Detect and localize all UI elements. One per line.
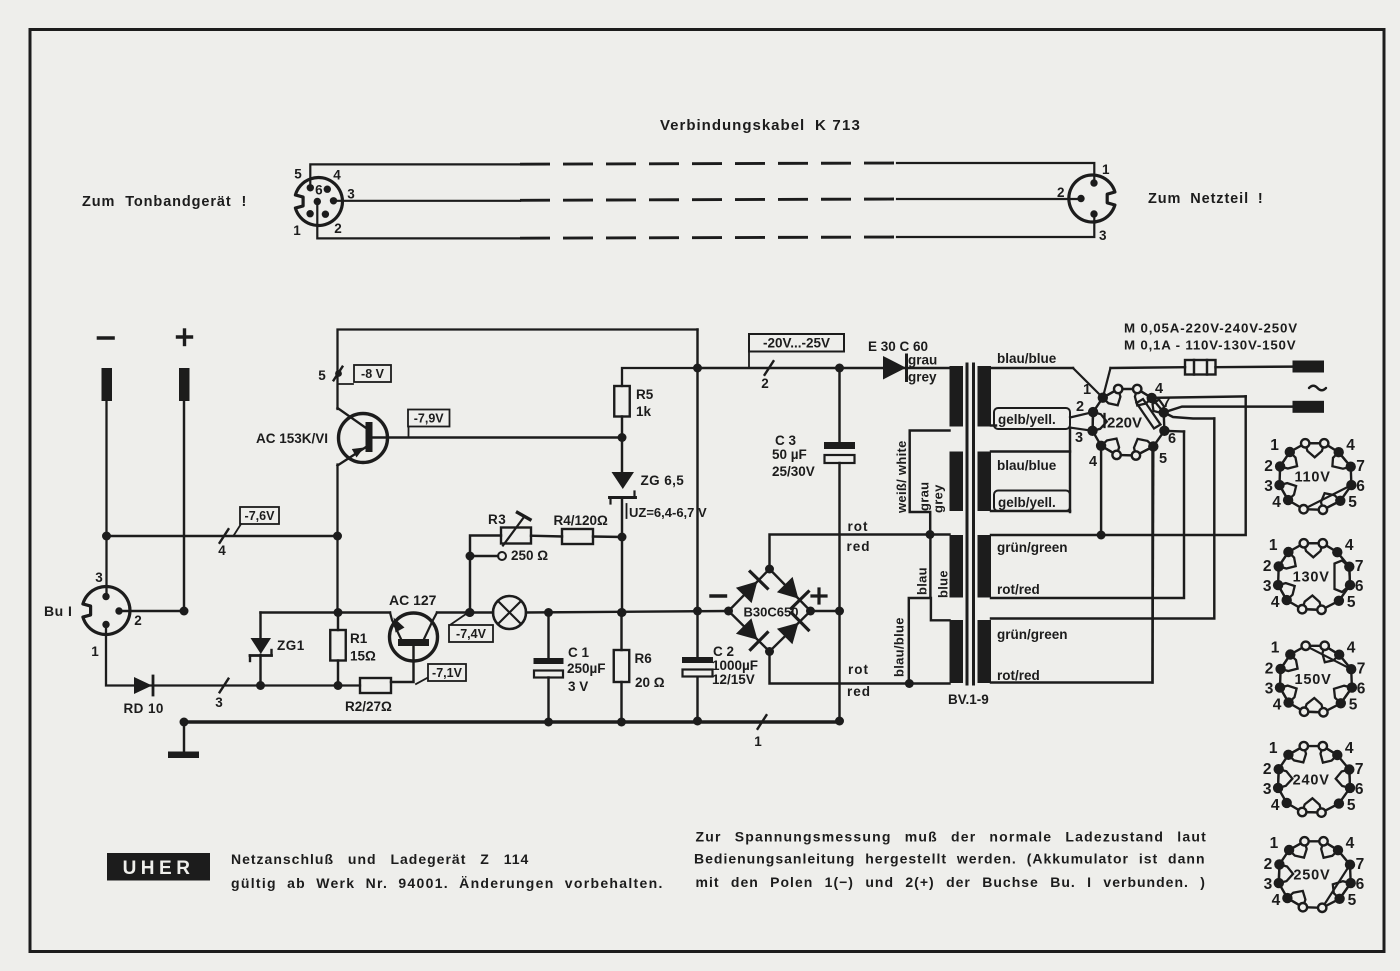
svg-text:3: 3 [1099, 228, 1107, 243]
svg-text:4: 4 [1271, 797, 1280, 814]
svg-text:2: 2 [1263, 761, 1272, 778]
mains terminal 2 [1293, 401, 1325, 413]
svg-text:4: 4 [1272, 892, 1281, 909]
svg-text:3: 3 [1265, 681, 1274, 698]
wire Bu I pin1 down to RD10 rail [106, 625, 360, 686]
svg-text:6: 6 [1356, 876, 1365, 893]
svg-text:K 713: K 713 [815, 117, 861, 134]
svg-text:grey: grey [908, 370, 937, 385]
svg-text:4: 4 [1346, 835, 1355, 852]
voltage label -7,9V [408, 427, 410, 438]
svg-text:1: 1 [91, 644, 99, 659]
svg-text:2: 2 [1263, 558, 1272, 575]
svg-text:blau/blue: blau/blue [997, 458, 1057, 473]
wire pin4 bottom-left down to green [1100, 446, 1102, 535]
svg-text:250 Ω: 250 Ω [511, 548, 548, 563]
svg-text:Bu I: Bu I [44, 603, 72, 619]
wire to pin3 [1070, 428, 1093, 431]
svg-text:3: 3 [347, 187, 355, 202]
selector detail 240V [1278, 746, 1350, 813]
bridge diode top-right [777, 577, 799, 599]
svg-text:7: 7 [1355, 558, 1364, 575]
svg-text:rot/red: rot/red [997, 582, 1040, 597]
diode RD10 [134, 677, 152, 694]
svg-text:5: 5 [1348, 494, 1357, 511]
svg-text:UZ=6,4-6,7 V: UZ=6,4-6,7 V [629, 505, 707, 520]
fuse M0.05A [1185, 360, 1216, 375]
svg-text:1000µF: 1000µF [712, 658, 758, 673]
svg-text:7: 7 [1357, 661, 1366, 678]
svg-text:ZG 6,5: ZG 6,5 [641, 473, 685, 488]
svg-text:6: 6 [1356, 478, 1365, 495]
svg-text:2: 2 [134, 613, 142, 628]
label UZ=6,4-6,7V [626, 504, 628, 518]
secondary wire rot/red SD bottom [991, 447, 1153, 683]
svg-text:-8 V: -8 V [361, 367, 385, 381]
svg-text:3: 3 [1263, 578, 1272, 595]
svg-text:20 Ω: 20 Ω [635, 675, 665, 690]
svg-text:red: red [847, 539, 871, 554]
svg-text:6: 6 [1168, 431, 1176, 447]
svg-text:BV.1-9: BV.1-9 [948, 692, 989, 707]
bridge diode bottom-right [777, 623, 799, 645]
selector detail 130V [1278, 543, 1350, 610]
secondary wire rot/red SC bottom [991, 432, 1184, 599]
svg-text:3: 3 [215, 695, 223, 710]
svg-text:1: 1 [754, 734, 762, 749]
svg-text:gelb/yell.: gelb/yell. [998, 412, 1056, 427]
svg-text:red: red [847, 684, 871, 699]
wire pin6 to rot riser [1164, 430, 1184, 433]
svg-text:R3: R3 [488, 512, 506, 527]
wire emitter node to AC127 [261, 611, 391, 613]
wire fuse to mains terminal 1 [1216, 365, 1293, 368]
svg-text:3 V: 3 V [568, 679, 588, 694]
svg-text:R4/120Ω: R4/120Ω [554, 513, 609, 528]
secondary wire blau/blue to pin1 [991, 367, 1073, 369]
resistor R4 120ohm [562, 529, 593, 544]
svg-text:RD 10: RD 10 [124, 701, 164, 716]
bridge diode top-left [736, 581, 758, 603]
svg-text:5: 5 [1348, 892, 1357, 909]
wire cable bottom conductor pin6 to pin3 [317, 202, 520, 239]
battery plus terminal [178, 335, 192, 338]
svg-text:130V: 130V [1293, 570, 1330, 586]
svg-text:6: 6 [1357, 681, 1366, 698]
svg-text:-7,9V: -7,9V [414, 412, 445, 426]
resistor R5 1k [622, 368, 698, 386]
svg-text:4: 4 [1272, 494, 1281, 511]
R3 wiper [498, 552, 506, 560]
selector detail 250V [1279, 841, 1351, 908]
220V rotor contact [1137, 399, 1161, 429]
bridge minus label [711, 594, 726, 597]
svg-text:grün/green: grün/green [997, 627, 1068, 642]
primary tap weiss/white [910, 431, 950, 535]
wire AC127 collector to lamp [437, 611, 493, 613]
svg-text:150V: 150V [1295, 672, 1332, 688]
svg-text:-20V...-25V: -20V...-25V [763, 336, 830, 351]
svg-text:AC 153K/VI: AC 153K/VI [256, 431, 328, 446]
svg-text:ZG1: ZG1 [277, 638, 305, 653]
secondary wire SB top blau/blue [991, 450, 1070, 452]
wire pin7 to terminal 2 [1164, 407, 1293, 413]
svg-text:blau/blue: blau/blue [997, 351, 1057, 366]
svg-text:4: 4 [1345, 537, 1354, 554]
svg-text:7: 7 [1356, 458, 1365, 475]
svg-text:R5: R5 [636, 387, 654, 402]
resistor R6 20ohm [614, 650, 630, 682]
svg-text:1k: 1k [636, 404, 652, 419]
svg-text:rot: rot [848, 662, 869, 677]
wire lamp to bridge minus [526, 611, 729, 613]
battery minus terminal [99, 336, 114, 340]
svg-text:UHER: UHER [123, 858, 195, 879]
capacitor C3 50uF [838, 368, 840, 442]
svg-text:Netzanschluß und Ladegerät Z 1: Netzanschluß und Ladegerät Z 114 [231, 851, 529, 867]
svg-text:2: 2 [1264, 458, 1273, 475]
svg-text:C 1: C 1 [568, 645, 590, 660]
svg-text:6: 6 [1355, 578, 1364, 595]
svg-text:5: 5 [1347, 594, 1356, 611]
svg-text:mit den Polen 1(−) und 2(+) de: mit den Polen 1(−) und 2(+) der Buchse B… [696, 874, 1206, 890]
svg-text:4: 4 [1271, 594, 1280, 611]
svg-text:4: 4 [1089, 454, 1097, 470]
resistor R1 15ohm [330, 630, 346, 661]
svg-text:250µF: 250µF [567, 661, 606, 676]
ground symbol [183, 722, 185, 752]
transformer core [966, 364, 969, 684]
svg-text:5: 5 [1347, 797, 1356, 814]
wire -20V rail [698, 367, 950, 369]
svg-text:-7,6V: -7,6V [245, 509, 276, 523]
secondary wire gelb/yell boxed to pin2 [991, 424, 996, 426]
wire R3 left to lamp node [470, 536, 501, 613]
svg-text:1: 1 [1269, 537, 1278, 554]
svg-text:12/15V: 12/15V [712, 672, 755, 687]
svg-text:6: 6 [1355, 781, 1364, 798]
svg-text:1: 1 [1269, 740, 1278, 757]
bottom bus wire [184, 720, 840, 724]
wire bridge AC top rot/red [770, 535, 950, 570]
svg-text:25/30V: 25/30V [772, 464, 815, 479]
switch contact 1 on bus [758, 715, 767, 729]
svg-text:gelb/yell.: gelb/yell. [998, 495, 1056, 510]
voltage selector 220V [1093, 389, 1165, 456]
connector J1 Tonbandgeraet 6-pin DIN [295, 178, 342, 226]
svg-text:5: 5 [318, 368, 326, 383]
svg-text:5: 5 [1349, 697, 1358, 714]
svg-text:weiß/ white: weiß/ white [894, 440, 909, 514]
transistor Q2 AC127 [390, 613, 438, 661]
svg-text:2: 2 [761, 376, 769, 391]
svg-text:1: 1 [293, 223, 301, 238]
svg-text:4: 4 [218, 543, 226, 558]
transistor Q1 AC153K/VI [339, 414, 388, 463]
selector detail 110V [1280, 443, 1352, 510]
zener diode ZG1 [259, 613, 261, 640]
svg-text:15Ω: 15Ω [350, 649, 376, 664]
svg-text:4: 4 [333, 168, 341, 183]
svg-text:110V: 110V [1294, 470, 1330, 486]
svg-text:1: 1 [1270, 835, 1279, 852]
svg-text:3: 3 [1264, 478, 1273, 495]
svg-text:2: 2 [1264, 856, 1273, 873]
wire cable top conductor pin5 to pin1 [310, 164, 520, 187]
transformer secondary winding bars [978, 366, 992, 427]
svg-text:4: 4 [1273, 697, 1282, 714]
primary tap blau/blue jog [909, 535, 931, 684]
svg-text:3: 3 [1263, 781, 1272, 798]
svg-text:Zum Tonbandgerät !: Zum Tonbandgerät ! [82, 194, 247, 210]
voltage label -7,6V [240, 507, 279, 524]
bridge diode bottom-left [736, 618, 758, 640]
wire collector AC153K to R5 node [373, 436, 623, 438]
wire pin3 vertical link [1069, 428, 1071, 512]
svg-text:rot/red: rot/red [997, 668, 1040, 683]
svg-text:blau: blau [915, 567, 930, 595]
svg-text:C 2: C 2 [713, 644, 734, 659]
svg-text:Zum Netzteil !: Zum Netzteil ! [1148, 191, 1264, 207]
diode E30C60 [883, 356, 906, 380]
svg-text:6: 6 [315, 183, 323, 198]
svg-text:3: 3 [95, 570, 103, 585]
svg-text:7: 7 [1356, 856, 1365, 873]
lamp [493, 596, 526, 629]
wire pin7 to SD green riser [1164, 412, 1215, 418]
connector Bu I [83, 587, 130, 635]
potentiometer R3 250ohm [501, 528, 531, 544]
wire -8V node vertical to bus [696, 330, 698, 612]
svg-text:M 0,05A-220V-240V-250V: M 0,05A-220V-240V-250V [1124, 321, 1298, 336]
svg-text:4: 4 [1346, 437, 1355, 454]
voltage label -8V [338, 383, 353, 385]
svg-text:grün/green: grün/green [997, 540, 1068, 555]
svg-text:-7,1V: -7,1V [432, 666, 463, 680]
svg-text:grey: grey [931, 484, 946, 513]
wire gelb box to pin2 [1070, 412, 1093, 417]
svg-text:Verbindungskabel: Verbindungskabel [660, 117, 805, 134]
svg-text:M 0,1A - 110V-130V-150V: M 0,1A - 110V-130V-150V [1124, 338, 1296, 353]
selector detail 150V [1280, 646, 1352, 713]
wire to fuse [1111, 366, 1186, 369]
svg-text:blue: blue [936, 570, 951, 598]
voltage label -7,1V [416, 677, 429, 684]
switch contact 5 with dot [334, 367, 343, 381]
capacitor C2 1000uF [682, 657, 713, 663]
svg-text:2: 2 [334, 221, 342, 236]
svg-text:1: 1 [1270, 437, 1279, 454]
svg-text:5: 5 [294, 167, 302, 182]
voltage box -20V...-25V [749, 334, 844, 352]
svg-text:5: 5 [1159, 451, 1167, 467]
wire ZG6.5 node down to lamp wire [621, 537, 623, 613]
wire bridge plus to C3 node [811, 610, 840, 612]
wire cable middle conductor pin3 to pin2 [334, 200, 521, 202]
svg-text:rot: rot [848, 519, 869, 534]
wire pin1 V junction [1073, 368, 1103, 398]
svg-text:grau: grau [917, 482, 932, 511]
svg-text:B30C650: B30C650 [744, 605, 799, 620]
voltage label -7,4V [450, 614, 466, 625]
svg-text:C 3: C 3 [775, 433, 797, 448]
svg-text:240V: 240V [1293, 772, 1330, 788]
svg-text:3: 3 [1264, 876, 1273, 893]
zener diode ZG6.5 [621, 438, 623, 473]
svg-text:4: 4 [1345, 740, 1354, 757]
svg-text:gültig ab Werk Nr. 94001. Ände: gültig ab Werk Nr. 94001. Änderungen vor… [231, 875, 664, 891]
svg-text:R2/27Ω: R2/27Ω [345, 699, 392, 714]
svg-text:3: 3 [1075, 430, 1083, 446]
switch contact 2 [765, 361, 774, 375]
wire -7.6V node horizontal [107, 535, 338, 537]
svg-text:AC 127: AC 127 [389, 592, 437, 608]
wire Bu I pin2 to plus rail [119, 610, 184, 612]
wire emitter AC153K up to -8V node [338, 330, 698, 410]
svg-text:7: 7 [1355, 761, 1364, 778]
svg-text:grau: grau [908, 353, 937, 368]
svg-text:1: 1 [1271, 640, 1280, 657]
svg-text:250V: 250V [1293, 868, 1330, 884]
svg-text:50 µF: 50 µF [772, 447, 807, 462]
connector J2 Netzteil 3-pin DIN [1069, 175, 1115, 222]
svg-text:1: 1 [1102, 162, 1110, 177]
svg-text:4: 4 [1347, 640, 1356, 657]
svg-text:2: 2 [1057, 185, 1065, 200]
svg-text:220V: 220V [1107, 415, 1142, 432]
UHER logo [107, 853, 210, 881]
switch contact 4 [220, 529, 229, 543]
transformer primary winding bars [950, 366, 964, 427]
svg-text:-7,4V: -7,4V [456, 627, 487, 641]
svg-text:blau/blue: blau/blue [892, 617, 907, 677]
capacitor C1 250uF 3V [547, 613, 549, 659]
svg-text:R1: R1 [350, 631, 368, 646]
resistor R2 27ohm [360, 678, 391, 693]
svg-text:R6: R6 [635, 651, 653, 666]
svg-text:Bedienungsanleitung hergestell: Bedienungsanleitung hergestellt werden. … [694, 851, 1206, 867]
secondary wire gruen/green SD top [991, 419, 1214, 619]
wire AC127 base lead [391, 646, 414, 682]
wire bridge AC bottom rot/red [770, 652, 950, 684]
bridge rectifier B30C650 [729, 569, 811, 652]
svg-text:2: 2 [1265, 661, 1274, 678]
mains terminal 1 [1293, 361, 1325, 373]
bridge plus label [812, 594, 826, 597]
wire pin5 down to rot/red [1151, 447, 1154, 683]
svg-text:Zur Spannungsmessung muß der n: Zur Spannungsmessung muß der normale Lad… [696, 829, 1207, 845]
secondary wire gruen/green SC top [991, 396, 1246, 535]
switch contact 3 [220, 679, 229, 693]
wire pin4 top-right to green riser [1152, 396, 1246, 398]
AC tilde symbol [1309, 386, 1326, 391]
secondary wire SB bottom gelb/yell boxed [991, 510, 1070, 512]
svg-text:2: 2 [1076, 399, 1084, 415]
